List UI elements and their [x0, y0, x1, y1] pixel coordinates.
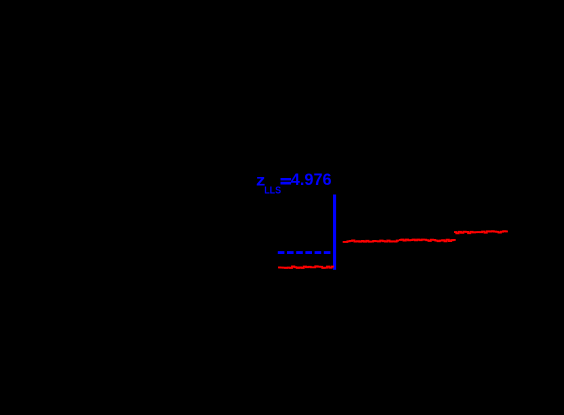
wire: red noisy continuum, left of break — [278, 266, 334, 268]
wire: red noisy continuum, upper right segment — [454, 231, 508, 233]
wire: blue dashed horizontal level line — [278, 251, 331, 254]
svg-text:LLS: LLS — [264, 184, 281, 196]
wire: red noisy continuum, middle segment — [343, 240, 399, 241]
svg-text:4.976: 4.976 — [291, 171, 332, 189]
label z_LLS=4.976 — [256, 171, 332, 197]
wire: blue vertical marker line at Lyman limit — [333, 195, 336, 270]
